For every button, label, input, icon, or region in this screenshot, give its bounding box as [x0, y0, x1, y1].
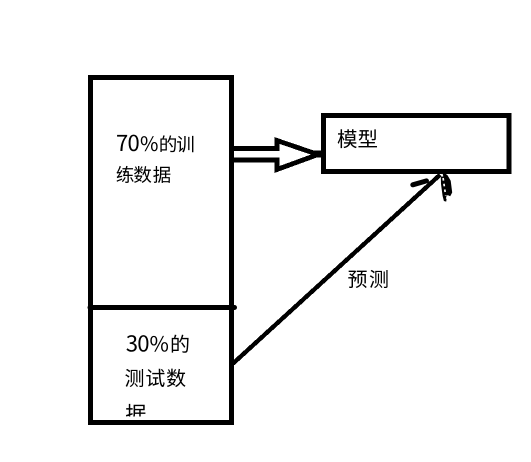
divider line between 70% and 30% sections [90, 305, 235, 310]
block arrow from training data to model [233, 141, 318, 170]
label: 30% test data line 1 "30%的" [126, 335, 188, 353]
prediction arrow diagonal line [233, 175, 440, 364]
label: test data line 2 "测试数" [125, 369, 185, 387]
label: model box text "模型" [338, 129, 377, 148]
label: test data line 3 "据" (clipped at text-box bottom) [126, 404, 146, 423]
prediction arrow head left barb [413, 181, 427, 185]
label: training data line 2 "练数据" [117, 166, 171, 183]
data rectangle (tall outer box) [91, 78, 232, 423]
white clip strip over bottom of 据 [112, 417, 160, 421]
prediction arrow head right scribble [441, 173, 452, 202]
label: prediction arrow text "预测" [348, 270, 387, 288]
label: 70% training data line 1 "70%的训" [117, 135, 193, 153]
model box [324, 116, 510, 172]
block arrow blunt tip stub joining model box border [314, 150, 323, 157]
